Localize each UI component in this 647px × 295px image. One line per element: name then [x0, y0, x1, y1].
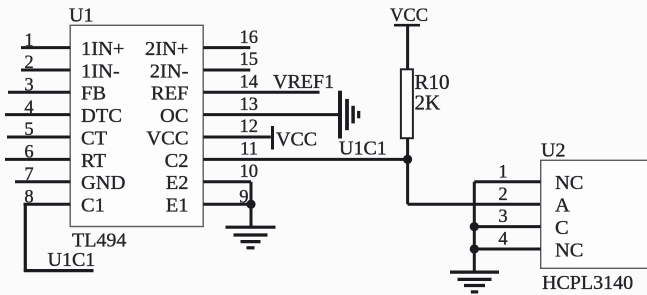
pin label NC (U2) [555, 172, 583, 194]
pin 9 wire [203, 203, 251, 206]
pin 13 number [240, 95, 259, 115]
svg-text:6: 6 [24, 143, 33, 163]
pin 4 number [24, 98, 33, 118]
pin 1 wire [21, 46, 70, 49]
net label VREF1 [273, 71, 334, 93]
pin 15 wire [203, 69, 250, 72]
power label VCC (top) [390, 6, 428, 26]
wire VCC to R10 [406, 25, 409, 69]
pin label CT [81, 127, 108, 149]
pin label FB [81, 83, 106, 105]
pin 3 wire [8, 91, 70, 94]
designator U1 [69, 4, 93, 26]
svg-text:1IN+: 1IN+ [81, 38, 124, 60]
pin 14 number [240, 73, 259, 93]
svg-text:U2: U2 [541, 140, 565, 162]
pin label RT [81, 150, 106, 172]
pin 10 wire [203, 180, 251, 183]
pin 13 wire [203, 113, 338, 116]
pin 3 wire (U2) [474, 225, 540, 228]
svg-text:14: 14 [240, 73, 259, 93]
svg-text:3: 3 [24, 76, 33, 96]
svg-text:2K: 2K [415, 90, 441, 114]
wire pin9 junction to ground [250, 204, 253, 227]
svg-text:VCC: VCC [146, 127, 188, 149]
pin 14 wire [203, 91, 319, 94]
pin label C (U2) [555, 217, 569, 239]
pin label GND [81, 172, 125, 194]
svg-text:2IN+: 2IN+ [145, 38, 188, 60]
pin label 1IN- [81, 60, 120, 82]
svg-text:GND: GND [81, 172, 125, 194]
svg-text:5: 5 [24, 120, 33, 140]
pin label VCC [146, 127, 188, 149]
pin 8 number [24, 187, 33, 207]
pin 4 number (U2) [498, 230, 507, 250]
pin 2 number (U2) [498, 185, 507, 205]
svg-text:1: 1 [498, 162, 507, 182]
svg-text:4: 4 [498, 230, 507, 250]
svg-text:CT: CT [81, 127, 108, 149]
svg-text:15: 15 [240, 50, 259, 70]
svg-text:VCC: VCC [390, 6, 428, 26]
svg-text:VCC: VCC [276, 129, 317, 151]
pin 1 number (U2) [498, 162, 507, 182]
resistor R10 body [401, 69, 413, 138]
junction pin9 [246, 200, 255, 209]
power VCC bar (top) [394, 24, 420, 27]
svg-text:NC: NC [555, 172, 583, 194]
pin 1 wire (U2) [474, 180, 540, 183]
pin 2 number [24, 53, 33, 73]
wire pin10 down to pin9 [250, 182, 253, 204]
power label VCC (pin 12) [276, 129, 317, 151]
pin 12 number [240, 117, 259, 137]
svg-text:FB: FB [81, 83, 106, 105]
value 2K [415, 90, 441, 114]
svg-text:2: 2 [24, 53, 33, 73]
pin 1 number [24, 31, 33, 51]
svg-text:REF: REF [151, 83, 189, 105]
pin 9 number [239, 187, 248, 207]
net label U1C1 (C2 node) [339, 138, 387, 160]
svg-text:12: 12 [240, 117, 259, 137]
svg-text:7: 7 [24, 165, 33, 185]
wire U2 left vertical [473, 182, 476, 271]
value HCPL3140 [542, 272, 633, 294]
svg-text:1IN-: 1IN- [81, 60, 120, 82]
pin 16 number [240, 28, 259, 48]
designator R10 [415, 70, 450, 94]
svg-text:DTC: DTC [81, 105, 122, 127]
svg-text:3: 3 [498, 207, 507, 227]
junction U2 pin 3 [470, 222, 479, 231]
pin 12 wire [203, 136, 271, 139]
pin label E1 [166, 195, 189, 217]
wire node to U2 pin 2 [408, 203, 541, 206]
junction U2 pin 4 [470, 244, 479, 253]
value TL494 [72, 230, 126, 252]
svg-text:13: 13 [240, 95, 259, 115]
wire node down [406, 159, 409, 204]
pin 7 wire [15, 180, 70, 183]
pin 5 number [24, 120, 33, 140]
net label U1C1 (C1 side) [48, 249, 96, 271]
svg-text:HCPL3140: HCPL3140 [542, 272, 633, 294]
pin 15 number [240, 50, 259, 70]
ground (rotated) on pin 13 OC [340, 91, 359, 139]
ground under U2 [450, 272, 499, 292]
pin 3 number [24, 76, 33, 96]
pin label E2 [166, 172, 189, 194]
IC U1 TL494 body [70, 25, 203, 226]
wire R10 to node [406, 138, 409, 159]
svg-text:1: 1 [24, 31, 33, 51]
power VCC bar on pin 12 [271, 126, 274, 150]
svg-text:A: A [555, 195, 570, 217]
ground under pin 9 [226, 227, 276, 248]
svg-text:E2: E2 [166, 172, 189, 194]
svg-text:RT: RT [81, 150, 106, 172]
pin 2 wire [21, 69, 70, 72]
svg-text:4: 4 [24, 98, 33, 118]
junction node C2/R10 [403, 155, 412, 164]
pin label DTC [81, 105, 122, 127]
svg-text:C2: C2 [165, 150, 189, 172]
pin 11 wire [203, 158, 407, 161]
pin label 2IN- [150, 60, 189, 82]
svg-text:C: C [555, 217, 569, 239]
pin 5 wire [7, 136, 70, 139]
svg-text:E1: E1 [166, 195, 189, 217]
svg-text:VREF1: VREF1 [273, 71, 334, 93]
pin label 2IN+ [145, 38, 188, 60]
svg-text:U1: U1 [69, 4, 93, 26]
pin label C1 [81, 195, 105, 217]
wire net U1C1 horizontal [24, 269, 94, 272]
pin label A (U2) [555, 195, 570, 217]
svg-text:11: 11 [240, 140, 258, 160]
pin 7 number [24, 165, 33, 185]
pin 11 number [240, 140, 258, 160]
svg-text:10: 10 [240, 162, 259, 182]
pin label NC (U2) [555, 239, 583, 261]
svg-text:C1: C1 [81, 195, 105, 217]
pin 10 number [240, 162, 259, 182]
svg-text:U1C1: U1C1 [48, 249, 96, 271]
svg-text:OC: OC [160, 105, 188, 127]
pin 16 wire [203, 46, 250, 49]
pin 3 number (U2) [498, 207, 507, 227]
svg-text:2: 2 [498, 185, 507, 205]
pin 6 number [24, 143, 33, 163]
svg-text:U1C1: U1C1 [339, 138, 387, 160]
pin 8 wire [24, 203, 71, 206]
pin label OC [160, 105, 188, 127]
pin label C2 [165, 150, 189, 172]
pin 4 wire (U2) [474, 248, 540, 251]
IC U2 HCPL3140 body [541, 160, 647, 268]
wire pin8 C1 vertical [24, 204, 27, 270]
svg-text:16: 16 [240, 28, 259, 48]
designator U2 [541, 140, 565, 162]
pin 4 wire [5, 113, 70, 116]
pin 6 wire [5, 158, 70, 161]
svg-text:NC: NC [555, 239, 583, 261]
pin label REF [151, 83, 189, 105]
pin label 1IN+ [81, 38, 124, 60]
svg-text:2IN-: 2IN- [150, 60, 189, 82]
